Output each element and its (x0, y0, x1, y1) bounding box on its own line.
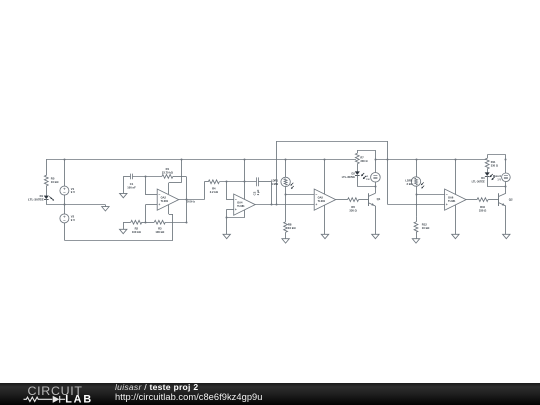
resistor R10 (477, 198, 488, 213)
LED D2 (342, 171, 366, 179)
wire motor box left stub (487, 155, 489, 159)
svg-text:D3: D3 (481, 176, 485, 180)
svg-text:1 W: 1 W (366, 179, 371, 181)
svg-text:R10: R10 (480, 205, 485, 209)
resistor R3 (154, 220, 165, 234)
node junction V1V2/mid (64, 204, 66, 206)
svg-text:R3: R3 (158, 227, 162, 231)
svg-text:LTL-307EE: LTL-307EE (472, 179, 485, 183)
node junction V1/rail (64, 159, 66, 161)
svg-text:LDR2: LDR2 (405, 178, 413, 182)
wire OA6 - input (416, 194, 445, 196)
wire lamp box bottom (357, 186, 375, 188)
ground Q2 (503, 234, 510, 238)
node junction LDR2 tap (416, 194, 418, 196)
transistor Q1 (368, 193, 380, 206)
svg-text:10 kΩ: 10 kΩ (288, 226, 296, 230)
CircuitLab logo (0, 383, 110, 405)
wire +9V rail left segment (46, 159, 356, 161)
node junction OA2 out (186, 199, 188, 201)
op-amp OA2 (157, 189, 179, 210)
svg-text:OA4: OA4 (237, 200, 243, 204)
voltage source V2 (60, 214, 75, 223)
node junction motor box bottom (505, 186, 507, 188)
wire C1 ground stub (123, 176, 130, 193)
wire left column top (46, 159, 48, 175)
svg-text:500Hz: 500Hz (187, 200, 196, 204)
svg-text:L1: L1 (366, 176, 369, 178)
wire motor box bottom (487, 186, 506, 188)
node junction OA4 gnd (226, 217, 228, 219)
svg-text:LDR1: LDR1 (271, 178, 279, 182)
svg-text:330 Ω: 330 Ω (360, 159, 367, 163)
node label 500Hz (187, 200, 196, 204)
resistor R12 (414, 222, 430, 232)
wire right rail segment (OA4 output net) (375, 159, 486, 161)
svg-text:D2: D2 (351, 171, 355, 175)
wire OA2 - input (146, 194, 158, 196)
LED D1 (28, 194, 54, 201)
wire R2 ground stub (123, 222, 131, 229)
ground Q1 (372, 234, 379, 238)
wire -9V bottom (64, 240, 173, 242)
node junction inv-feed (145, 176, 147, 178)
resistor R6 (348, 198, 359, 213)
wire lamp box top (357, 150, 375, 152)
svg-text:TL081: TL081 (237, 204, 245, 208)
svg-text:330 Ω: 330 Ω (491, 163, 498, 167)
wire OA6 V+ (455, 159, 457, 194)
resistor R2 (131, 220, 142, 234)
lamp tiny label (366, 176, 371, 181)
wire OA4 + input (227, 209, 234, 211)
svg-text:10 kΩ: 10 kΩ (51, 180, 59, 184)
svg-text:LTL-307EE: LTL-307EE (28, 197, 44, 201)
wire riser to R4 (204, 181, 208, 183)
wire OA2 out riser (204, 182, 206, 200)
wire OA6 V- (455, 205, 457, 234)
node junction OA4 V+ cross (244, 181, 246, 183)
ground R2 (120, 229, 127, 233)
svg-text:330 Ω: 330 Ω (349, 208, 357, 212)
wire V1 bottom (64, 195, 66, 205)
wire motor branch top (505, 155, 507, 173)
footer bar (0, 383, 540, 405)
footer title text (115, 382, 198, 392)
node junction riser/out (276, 204, 278, 206)
wire C2 right drop (258, 182, 271, 205)
wire LDR1 bottom (285, 186, 287, 222)
node junction lamp/rail (375, 159, 377, 161)
wire R12 top stub (416, 217, 418, 222)
node junction LDR2/rail (416, 159, 418, 161)
resistor R5 (44, 175, 59, 186)
wire R5 to D1 (46, 186, 48, 196)
op-amp OA6 (445, 189, 467, 210)
svg-text:100 kΩ: 100 kΩ (132, 230, 142, 234)
resistor R11 (485, 158, 498, 169)
svg-text:9 V: 9 V (71, 218, 75, 222)
node junction OA6 V+/rail (455, 159, 457, 161)
ground OA6 (452, 234, 459, 238)
wire LDR2 top (416, 159, 418, 177)
wire lamp bottom (375, 182, 377, 187)
node junction OA5 V+/rail (324, 159, 326, 161)
wire V2 bottom (64, 223, 66, 241)
wire V1 top (64, 159, 66, 186)
svg-text:9 V: 9 V (71, 190, 75, 194)
resistor R4 (208, 180, 219, 194)
svg-text:OA2: OA2 (161, 195, 167, 199)
wire D3 to box bottom (487, 176, 489, 186)
svg-text:OA5: OA5 (318, 195, 324, 199)
node junction LDR1 tap (285, 194, 287, 196)
wire OA5 output (336, 199, 348, 201)
op-amp OA5 (314, 189, 336, 210)
svg-text:Q1: Q1 (377, 197, 381, 201)
wire R3 right (165, 222, 186, 224)
svg-text:TL081: TL081 (318, 199, 326, 203)
wire OA5 V- (324, 205, 326, 234)
svg-text:R2: R2 (135, 227, 139, 231)
wire V2 top (64, 205, 66, 215)
wire OA4 output (255, 204, 314, 206)
wire D1 to mid node (46, 199, 48, 204)
node junction OA2 V+/rail (181, 159, 183, 161)
svg-text:R4: R4 (212, 186, 216, 190)
ground R12 (412, 239, 419, 243)
svg-text:100 kΩ: 100 kΩ (155, 230, 165, 234)
svg-text:R1: R1 (166, 167, 170, 171)
wire riser right (upper run down to OA6 +) (387, 141, 389, 205)
wire feedback vertical (186, 176, 188, 222)
wire Q2 collector up (505, 187, 507, 194)
voltage source V1 (60, 186, 75, 195)
wire LDR2 bottom (416, 186, 418, 217)
wire OA4 - drop (227, 182, 234, 200)
svg-text:C1: C1 (130, 182, 134, 186)
wire R7 to D2 (357, 164, 359, 172)
wire OA6 + input feed (388, 204, 445, 206)
ground C1 (120, 193, 127, 197)
op-amp OA4 (234, 194, 256, 215)
node junction OA4 V+/rail (244, 159, 246, 161)
svg-text:1 MΩ: 1 MΩ (271, 182, 278, 186)
wire R10 to Q2 (488, 199, 499, 201)
wire R1 right (173, 176, 186, 178)
svg-text:LAB: LAB (65, 394, 93, 405)
wire noninv drop (145, 205, 147, 223)
node junction riser/right-rail (387, 159, 389, 161)
ground R8 (282, 239, 289, 243)
wire R11 to D3 (487, 169, 489, 173)
svg-text:23.70 kΩ: 23.70 kΩ (162, 170, 174, 174)
wire OA5 V+ (324, 159, 326, 194)
node junction LDR1/rail (285, 159, 287, 161)
motor Motor1 (493, 173, 510, 182)
svg-text:10 kΩ: 10 kΩ (422, 226, 430, 230)
wire mid node left (46, 204, 105, 206)
resistor R7 (355, 153, 367, 164)
wire Q2 emitter down (505, 206, 507, 234)
svg-text:1 µF: 1 µF (256, 189, 260, 195)
wire OA2 V- route (169, 205, 174, 241)
transistor Q2 (499, 193, 513, 206)
photoresistor LDR2 (405, 177, 424, 189)
wire upper feedback run (276, 141, 388, 143)
wire OA2 output (179, 199, 205, 201)
ground mid node (102, 205, 109, 211)
wire OA4 V+ (244, 159, 246, 199)
svg-text:2.2 kΩ: 2.2 kΩ (210, 190, 219, 194)
wire motor bottom (505, 182, 507, 187)
svg-text:TL081: TL081 (448, 199, 456, 203)
LED D3 (472, 173, 495, 184)
svg-text:3 kΩ: 3 kΩ (406, 182, 413, 186)
svg-text:R7: R7 (360, 156, 364, 160)
wire box left stub (357, 150, 359, 153)
wire OA2 + input (146, 204, 158, 206)
wire LDR1 top (285, 159, 287, 178)
svg-text:LTL-307EE: LTL-307EE (342, 175, 355, 179)
svg-text:330 Ω: 330 Ω (479, 208, 487, 212)
wire R4 to C2 (219, 181, 256, 183)
svg-text:TL081: TL081 (161, 199, 169, 203)
wire Q1 emitter down (375, 206, 377, 234)
lamp L1 (371, 173, 381, 183)
resistor R8 (284, 222, 297, 232)
node junction R3/feedback (186, 222, 188, 224)
capacitor C2 (253, 177, 260, 195)
node junction OA4 inv (226, 181, 228, 183)
node junction R2R3 (145, 222, 147, 224)
footer url text (115, 392, 262, 402)
ground OA4 (223, 234, 230, 238)
svg-text:OA6: OA6 (448, 195, 454, 199)
wire Q1 collector up (375, 187, 377, 194)
wire R2-R3 (142, 222, 155, 224)
wire OA2 V+ route (169, 159, 182, 194)
wire lamp branch top (375, 150, 377, 173)
wire OA4 + ground drop (226, 209, 228, 234)
photoresistor LDR1 (271, 177, 294, 189)
wire R6 to Q1 (359, 199, 369, 201)
node junction motor/rail (505, 159, 507, 161)
wire R12 bottom (416, 232, 418, 238)
resistor R1 (162, 167, 174, 179)
ground OA5 (321, 234, 328, 238)
wire OA4 V- jog (227, 210, 245, 218)
capacitor C1 (127, 174, 136, 190)
wire C1 to R1 (133, 176, 162, 178)
svg-text:100 nF: 100 nF (127, 185, 136, 189)
svg-text:1 V: 1 V (497, 178, 501, 181)
wire OA6 output (466, 199, 477, 201)
node junction C2/out (271, 204, 273, 206)
node junction LDR2/+wire cross (416, 204, 418, 206)
svg-text:R6: R6 (351, 205, 355, 209)
svg-text:R11: R11 (491, 160, 496, 164)
wire inv input drop (145, 176, 147, 195)
node junction box bottom (375, 186, 377, 188)
wire motor box top (487, 154, 506, 156)
wire OA5 - input (286, 194, 315, 196)
wire D2 to box bottom (357, 175, 359, 186)
wire R8 bottom (285, 232, 287, 238)
wire riser left (OA4 out to upper run) (276, 141, 278, 205)
svg-text:Q2: Q2 (509, 198, 513, 202)
